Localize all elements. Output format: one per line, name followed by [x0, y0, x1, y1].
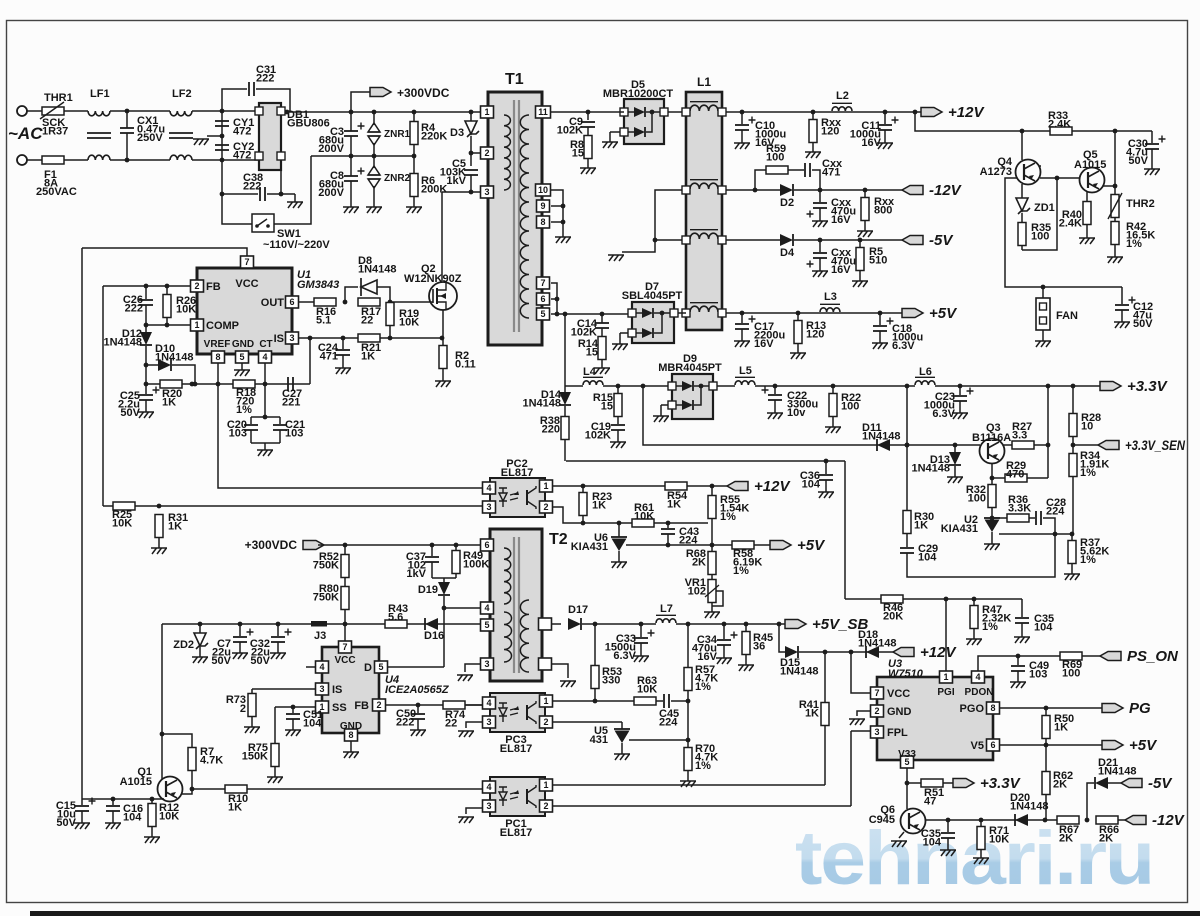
svg-text:472: 472 — [233, 150, 251, 162]
svg-text:7: 7 — [874, 688, 879, 698]
svg-text:200V: 200V — [318, 143, 344, 155]
svg-text:2K: 2K — [1099, 833, 1113, 845]
svg-text:471: 471 — [822, 167, 840, 179]
svg-text:1N4148: 1N4148 — [911, 463, 950, 475]
svg-text:ZD2: ZD2 — [173, 639, 194, 651]
svg-text:1: 1 — [543, 696, 548, 706]
svg-text:330: 330 — [602, 675, 620, 687]
svg-text:GND: GND — [232, 339, 254, 350]
svg-text:7: 7 — [244, 257, 249, 267]
svg-text:1K: 1K — [1054, 722, 1068, 734]
svg-text:+5V: +5V — [929, 305, 958, 322]
svg-text:120: 120 — [821, 126, 839, 138]
svg-text:10: 10 — [538, 185, 548, 195]
svg-text:3: 3 — [486, 717, 491, 727]
svg-text:W7510: W7510 — [888, 668, 924, 680]
svg-text:6: 6 — [540, 294, 545, 304]
svg-text:L4: L4 — [583, 366, 597, 378]
svg-text:102K: 102K — [557, 125, 583, 137]
svg-text:+12V: +12V — [948, 104, 985, 121]
svg-text:D17: D17 — [568, 604, 588, 616]
svg-text:220: 220 — [542, 424, 560, 436]
svg-text:V33: V33 — [898, 749, 916, 760]
svg-text:0.11: 0.11 — [455, 359, 476, 371]
svg-text:104: 104 — [303, 718, 322, 730]
svg-text:8: 8 — [990, 703, 995, 713]
svg-text:100K: 100K — [463, 559, 489, 571]
svg-text:221: 221 — [282, 397, 300, 409]
svg-text:+300VDC: +300VDC — [397, 86, 450, 100]
svg-text:15: 15 — [572, 148, 584, 160]
svg-text:D16: D16 — [424, 630, 444, 642]
svg-text:22: 22 — [445, 718, 457, 730]
svg-text:2: 2 — [543, 502, 548, 512]
svg-text:104: 104 — [918, 552, 937, 564]
svg-text:100: 100 — [766, 152, 784, 164]
svg-text:1%: 1% — [1126, 238, 1142, 250]
svg-text:2: 2 — [484, 148, 489, 158]
svg-text:2K: 2K — [1059, 833, 1073, 845]
svg-text:1kV: 1kV — [446, 175, 466, 187]
svg-text:D: D — [364, 662, 372, 674]
svg-text:1%: 1% — [236, 404, 252, 416]
svg-text:KIA431: KIA431 — [571, 541, 608, 553]
svg-text:1N4148: 1N4148 — [862, 431, 901, 443]
svg-text:T2: T2 — [549, 531, 568, 548]
svg-text:EL817: EL817 — [500, 827, 532, 839]
svg-text:470: 470 — [1006, 469, 1024, 481]
svg-text:1K: 1K — [592, 500, 606, 512]
svg-text:5: 5 — [540, 309, 545, 319]
svg-text:16V: 16V — [697, 651, 717, 663]
svg-text:THR2: THR2 — [1126, 198, 1155, 210]
svg-text:1N4148: 1N4148 — [522, 398, 561, 410]
svg-text:102K: 102K — [571, 327, 597, 339]
svg-text:8: 8 — [540, 217, 545, 227]
svg-text:5.1: 5.1 — [316, 315, 331, 327]
svg-text:3: 3 — [486, 502, 491, 512]
svg-text:16V: 16V — [861, 137, 881, 149]
svg-text:3.3: 3.3 — [1012, 430, 1027, 442]
svg-text:103: 103 — [229, 428, 247, 440]
svg-text:OUT: OUT — [261, 297, 285, 309]
svg-text:4: 4 — [486, 483, 491, 493]
svg-text:3: 3 — [486, 801, 491, 811]
svg-text:16V: 16V — [754, 338, 774, 350]
svg-text:2: 2 — [376, 700, 381, 710]
svg-text:GND: GND — [887, 706, 912, 718]
svg-text:FPL: FPL — [887, 727, 908, 739]
svg-text:2: 2 — [874, 706, 879, 716]
svg-text:510: 510 — [869, 255, 887, 267]
svg-text:200K: 200K — [421, 184, 447, 196]
svg-text:L6: L6 — [919, 366, 932, 378]
svg-text:50V: 50V — [56, 817, 76, 829]
svg-text:EL817: EL817 — [500, 743, 532, 755]
svg-text:L3: L3 — [824, 291, 837, 303]
svg-text:2.4K: 2.4K — [1048, 119, 1071, 131]
svg-text:50V: 50V — [1128, 155, 1148, 167]
svg-text:1%: 1% — [1080, 554, 1096, 566]
svg-text:7: 7 — [342, 642, 347, 652]
svg-text:C945: C945 — [869, 814, 895, 826]
svg-text:LF2: LF2 — [172, 88, 192, 100]
svg-text:100: 100 — [1062, 668, 1080, 680]
svg-text:10: 10 — [1081, 421, 1093, 433]
svg-text:MBR10200CT: MBR10200CT — [603, 88, 674, 100]
svg-text:47: 47 — [924, 796, 936, 808]
svg-text:102: 102 — [688, 586, 706, 598]
svg-text:4: 4 — [486, 698, 491, 708]
svg-text:222: 222 — [125, 303, 143, 315]
svg-text:VCC: VCC — [334, 655, 355, 666]
svg-text:6: 6 — [289, 297, 294, 307]
svg-text:10K: 10K — [176, 304, 196, 316]
svg-text:2K: 2K — [1053, 779, 1067, 791]
svg-text:2K: 2K — [692, 557, 706, 569]
svg-text:-5V: -5V — [1148, 775, 1173, 792]
svg-text:200V: 200V — [318, 187, 344, 199]
svg-text:SS: SS — [332, 702, 347, 714]
svg-text:104: 104 — [923, 837, 942, 849]
svg-text:120: 120 — [806, 329, 824, 341]
svg-text:104: 104 — [802, 479, 821, 491]
svg-text:PG: PG — [1129, 700, 1151, 717]
svg-text:750K: 750K — [313, 560, 339, 572]
svg-text:7: 7 — [540, 278, 545, 288]
svg-text:ICE2A0565Z: ICE2A0565Z — [385, 684, 450, 696]
svg-text:~AC: ~AC — [8, 124, 43, 143]
svg-text:3: 3 — [484, 187, 489, 197]
svg-text:+3.3V: +3.3V — [980, 775, 1022, 792]
svg-text:2.4K: 2.4K — [1059, 218, 1082, 230]
svg-text:1K: 1K — [228, 802, 242, 814]
svg-text:5: 5 — [484, 620, 489, 630]
svg-text:4: 4 — [975, 672, 980, 682]
svg-text:PGO: PGO — [960, 703, 985, 715]
svg-text:IS: IS — [274, 333, 284, 345]
svg-text:4: 4 — [484, 603, 489, 613]
svg-text:W12NK90Z: W12NK90Z — [404, 273, 462, 285]
svg-text:D2: D2 — [780, 197, 794, 209]
svg-text:2: 2 — [194, 281, 199, 291]
svg-text:1N4148: 1N4148 — [155, 352, 194, 364]
svg-text:PS_ON: PS_ON — [1127, 648, 1179, 665]
svg-text:CT: CT — [259, 339, 272, 350]
svg-text:50V: 50V — [1133, 318, 1153, 330]
svg-text:FB: FB — [206, 281, 221, 293]
svg-text:+5V: +5V — [1129, 737, 1158, 754]
svg-text:10K: 10K — [159, 811, 179, 823]
svg-text:100: 100 — [968, 493, 986, 505]
svg-text:1%: 1% — [695, 681, 711, 693]
svg-text:+300VDC: +300VDC — [245, 538, 298, 552]
svg-text:A1273: A1273 — [980, 166, 1012, 178]
svg-text:220K: 220K — [421, 131, 447, 143]
svg-text:3.3K: 3.3K — [1008, 503, 1031, 515]
svg-text:VREF: VREF — [204, 339, 231, 350]
svg-text:KIA431: KIA431 — [941, 523, 978, 535]
svg-text:250VAC: 250VAC — [36, 186, 77, 198]
svg-text:103: 103 — [1029, 669, 1047, 681]
svg-text:250V: 250V — [137, 132, 163, 144]
svg-text:16V: 16V — [831, 264, 851, 276]
svg-text:5: 5 — [378, 662, 383, 672]
svg-text:ZD1: ZD1 — [1034, 202, 1055, 214]
svg-text:16V: 16V — [831, 214, 851, 226]
svg-text:L1: L1 — [697, 75, 711, 89]
svg-text:1N4148: 1N4148 — [1010, 801, 1049, 813]
svg-text:1K: 1K — [667, 499, 681, 511]
svg-text:MBR4045PT: MBR4045PT — [658, 362, 722, 374]
svg-text:GM3843: GM3843 — [297, 279, 339, 291]
svg-text:LF1: LF1 — [90, 88, 110, 100]
svg-text:15: 15 — [586, 347, 598, 359]
svg-text:~110V/~220V: ~110V/~220V — [263, 239, 330, 251]
svg-text:PGI: PGI — [937, 687, 954, 698]
svg-text:104: 104 — [1034, 622, 1053, 634]
svg-text:100: 100 — [841, 401, 859, 413]
svg-text:COMP: COMP — [206, 320, 239, 332]
svg-text:100: 100 — [1031, 231, 1049, 243]
svg-text:VCC: VCC — [887, 688, 910, 700]
svg-text:4: 4 — [262, 352, 267, 362]
svg-text:+3.3V_SEN: +3.3V_SEN — [1125, 437, 1186, 453]
svg-text:1K: 1K — [914, 520, 928, 532]
svg-text:D19: D19 — [418, 584, 438, 596]
svg-text:1%: 1% — [695, 760, 711, 772]
svg-text:VCC: VCC — [235, 278, 258, 290]
svg-text:L7: L7 — [660, 603, 673, 615]
svg-text:FB: FB — [354, 700, 369, 712]
svg-text:800: 800 — [874, 205, 892, 217]
svg-text:6: 6 — [484, 540, 489, 550]
svg-text:1: 1 — [543, 481, 548, 491]
svg-text:10K: 10K — [399, 317, 419, 329]
svg-text:1N4148: 1N4148 — [103, 337, 142, 349]
svg-text:ZNR2: ZNR2 — [384, 173, 411, 184]
svg-text:1: 1 — [543, 780, 548, 790]
svg-text:1N4148: 1N4148 — [780, 666, 819, 678]
svg-text:4: 4 — [319, 662, 324, 672]
svg-text:1R37: 1R37 — [42, 126, 68, 138]
svg-text:FAN: FAN — [1056, 310, 1078, 322]
svg-text:50V: 50V — [120, 407, 140, 419]
svg-text:750K: 750K — [313, 592, 339, 604]
svg-text:ZNR1: ZNR1 — [384, 129, 411, 140]
svg-text:GND: GND — [340, 721, 362, 732]
svg-text:THR1: THR1 — [44, 92, 73, 104]
svg-text:10K: 10K — [634, 511, 654, 523]
svg-text:9: 9 — [540, 201, 545, 211]
svg-text:B1116A: B1116A — [972, 432, 1011, 444]
svg-text:22: 22 — [361, 315, 373, 327]
svg-text:1%: 1% — [733, 565, 749, 577]
svg-text:L5: L5 — [739, 365, 752, 377]
svg-text:10K: 10K — [637, 684, 657, 696]
svg-text:50V: 50V — [250, 655, 270, 667]
svg-text:103: 103 — [285, 428, 303, 440]
svg-text:J3: J3 — [314, 630, 326, 642]
svg-text:3: 3 — [874, 727, 879, 737]
svg-text:224: 224 — [659, 717, 678, 729]
svg-text:3: 3 — [289, 333, 294, 343]
svg-text:8: 8 — [215, 352, 220, 362]
svg-text:224: 224 — [1046, 506, 1065, 518]
svg-text:1%: 1% — [982, 621, 998, 633]
svg-text:2: 2 — [240, 703, 246, 715]
svg-text:+12V: +12V — [920, 644, 957, 661]
svg-text:104: 104 — [123, 812, 142, 824]
svg-text:3: 3 — [319, 684, 324, 694]
svg-text:1K: 1K — [168, 521, 182, 533]
svg-text:V5: V5 — [971, 740, 984, 752]
svg-text:102K: 102K — [585, 430, 611, 442]
svg-text:6.3V: 6.3V — [613, 650, 636, 662]
svg-text:36: 36 — [753, 641, 765, 653]
svg-text:10K: 10K — [989, 834, 1009, 846]
svg-text:2: 2 — [543, 801, 548, 811]
svg-text:1N4148: 1N4148 — [1098, 766, 1137, 778]
svg-text:5.6: 5.6 — [388, 612, 403, 624]
svg-text:222: 222 — [396, 717, 414, 729]
svg-text:1N4148: 1N4148 — [358, 264, 397, 276]
svg-text:IS: IS — [332, 684, 342, 696]
svg-text:4: 4 — [486, 782, 491, 792]
svg-text:D3: D3 — [450, 127, 464, 139]
svg-text:A1015: A1015 — [120, 776, 152, 788]
svg-text:1%: 1% — [1080, 467, 1096, 479]
svg-text:1K: 1K — [805, 708, 819, 720]
svg-text:-12V: -12V — [1152, 812, 1186, 829]
svg-text:471: 471 — [320, 351, 338, 363]
svg-text:11: 11 — [538, 107, 548, 117]
svg-text:150K: 150K — [242, 751, 268, 763]
svg-text:+5V: +5V — [797, 537, 826, 554]
svg-text:431: 431 — [590, 734, 608, 746]
svg-text:PDON: PDON — [965, 687, 994, 698]
svg-text:T1: T1 — [505, 71, 524, 88]
svg-text:A1015: A1015 — [1074, 159, 1106, 171]
svg-text:1N4148: 1N4148 — [858, 638, 897, 650]
svg-text:222: 222 — [256, 73, 274, 85]
svg-text:3: 3 — [484, 659, 489, 669]
svg-text:-12V: -12V — [929, 182, 963, 199]
svg-text:+3.3V: +3.3V — [1127, 378, 1169, 395]
svg-text:1: 1 — [943, 672, 948, 682]
svg-text:+12V: +12V — [754, 478, 791, 495]
svg-text:4.7K: 4.7K — [200, 755, 223, 767]
svg-text:20K: 20K — [883, 611, 903, 623]
svg-text:1: 1 — [484, 107, 489, 117]
svg-text:1: 1 — [194, 320, 199, 330]
svg-text:10v: 10v — [787, 407, 806, 419]
svg-text:6.3V: 6.3V — [892, 340, 915, 352]
svg-text:EL817: EL817 — [501, 467, 533, 479]
svg-text:10K: 10K — [112, 518, 132, 530]
svg-text:1%: 1% — [720, 511, 736, 523]
svg-text:6.3V: 6.3V — [932, 408, 955, 420]
svg-text:1K: 1K — [361, 351, 375, 363]
svg-text:222: 222 — [243, 181, 261, 193]
svg-text:472: 472 — [233, 126, 251, 138]
svg-text:2: 2 — [543, 717, 548, 727]
svg-text:D4: D4 — [780, 247, 795, 259]
svg-text:15: 15 — [601, 401, 613, 413]
svg-text:6: 6 — [990, 740, 995, 750]
svg-text:GBU806: GBU806 — [287, 118, 330, 130]
svg-text:1kV: 1kV — [406, 568, 426, 580]
svg-text:1K: 1K — [162, 397, 176, 409]
svg-text:SBL4045PT: SBL4045PT — [622, 290, 683, 302]
svg-text:L2: L2 — [836, 90, 849, 102]
svg-text:50V: 50V — [211, 655, 231, 667]
svg-text:-5V: -5V — [929, 232, 954, 249]
svg-text:5: 5 — [239, 352, 244, 362]
